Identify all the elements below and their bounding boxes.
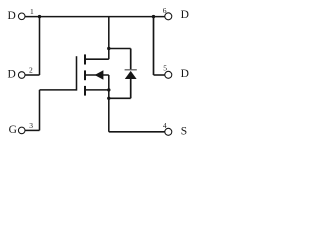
- svg-text:5: 5: [163, 63, 167, 72]
- svg-text:6: 6: [163, 6, 167, 15]
- svg-text:D: D: [8, 68, 16, 80]
- svg-text:S: S: [181, 125, 187, 137]
- svg-text:D: D: [8, 10, 16, 22]
- svg-text:D: D: [181, 68, 189, 80]
- svg-text:1: 1: [30, 7, 34, 16]
- svg-text:3: 3: [29, 121, 33, 130]
- svg-text:2: 2: [29, 65, 33, 74]
- svg-text:D: D: [181, 9, 189, 21]
- svg-text:4: 4: [163, 121, 167, 130]
- svg-text:G: G: [9, 124, 17, 136]
